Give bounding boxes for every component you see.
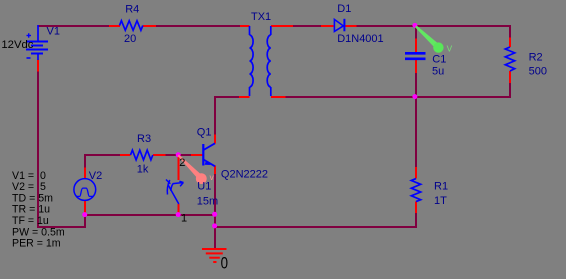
svg-text:TR = 1u: TR = 1u — [12, 204, 50, 216]
svg-text:R4: R4 — [125, 4, 139, 16]
svg-text:D1: D1 — [337, 3, 351, 15]
svg-text:R2: R2 — [529, 52, 543, 64]
svg-text:15m: 15m — [197, 196, 218, 208]
svg-text:Q2N2222: Q2N2222 — [221, 169, 268, 181]
svg-text:1: 1 — [181, 212, 187, 224]
svg-text:500: 500 — [529, 65, 547, 77]
svg-text:1T: 1T — [434, 195, 447, 207]
svg-text:12Vdc: 12Vdc — [1, 39, 33, 51]
svg-text:1k: 1k — [137, 163, 149, 175]
svg-text:TX1: TX1 — [251, 11, 271, 23]
svg-text:Q1: Q1 — [197, 127, 212, 139]
svg-text:V1: V1 — [47, 25, 60, 37]
svg-text:TF = 1u: TF = 1u — [12, 215, 49, 227]
svg-text:V2: V2 — [89, 170, 102, 182]
svg-text:2: 2 — [179, 157, 185, 169]
svg-text:TD = 5m: TD = 5m — [12, 192, 53, 204]
svg-text:V: V — [447, 43, 453, 53]
svg-text:PW = 0.5m: PW = 0.5m — [12, 226, 65, 238]
svg-text:C1: C1 — [432, 53, 446, 65]
svg-text:R1: R1 — [434, 181, 448, 193]
svg-text:20: 20 — [124, 33, 136, 45]
svg-text:5u: 5u — [432, 65, 444, 77]
svg-text:U1: U1 — [197, 181, 211, 193]
svg-text:PER = 1m: PER = 1m — [12, 238, 61, 250]
svg-text:0: 0 — [221, 255, 228, 273]
svg-text:V1 = 0: V1 = 0 — [12, 170, 46, 182]
svg-text:V2 = 5: V2 = 5 — [12, 181, 46, 193]
svg-text:R3: R3 — [137, 133, 151, 145]
svg-text:D1N4001: D1N4001 — [337, 33, 383, 45]
